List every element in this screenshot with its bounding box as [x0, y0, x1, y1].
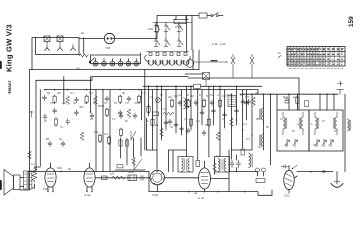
resistor R45 [0, 0, 1, 1]
wire grid bus y171.5 [28, 171, 149, 173]
capacitor C34 [212, 108, 216, 114]
bus right y94.2 [240, 93, 338, 95]
svg-text:8μF: 8μF [283, 95, 288, 99]
coil L7 choke [228, 96, 236, 107]
IF transformer can Fi2 [309, 110, 343, 151]
parts table top right [287, 47, 345, 67]
earth electrode hook [331, 172, 343, 188]
wire left rail from selector [32, 38, 36, 70]
IF transformer Fi3 (mid bottom) [178, 157, 193, 173]
wire selector tap down [83, 38, 85, 54]
svg-text:50: 50 [210, 93, 213, 97]
wire rail x231.4 [230, 94, 232, 159]
svg-text:F18: F18 [43, 187, 49, 191]
resistor R27 [213, 159, 217, 175]
component value labels [31, 91, 298, 176]
wire mains bus top [157, 15, 223, 17]
capacitor C41 [186, 128, 190, 134]
junction dots right cluster [236, 119, 264, 135]
wire step at x92 [91, 77, 93, 81]
svg-text:50: 50 [90, 117, 93, 121]
svg-text:300: 300 [79, 105, 84, 109]
IF transformer can Fi1 [277, 110, 309, 151]
svg-text:2M: 2M [168, 95, 172, 99]
wire rail x173 lower [172, 150, 174, 172]
wire V5 to earth y171.6 [294, 172, 333, 178]
wire rail x246.5 [246, 90, 248, 120]
wire V3 anode to V4 grid [165, 177, 199, 179]
capacitor C42 [202, 130, 206, 136]
coil L10 left of Fi1 lower [260, 134, 264, 146]
resistor R28 [241, 149, 244, 155]
wire rail x181.5 [181, 90, 183, 135]
wire rail x40.3 [39, 90, 41, 166]
svg-text:5k: 5k [146, 119, 149, 123]
svg-text:159: 159 [348, 16, 355, 27]
svg-text:0,1: 0,1 [104, 132, 109, 136]
svg-text:U a1: U a1 [198, 196, 205, 200]
wire rail x152.5 [152, 90, 154, 130]
svg-text:0,1: 0,1 [70, 91, 74, 95]
trimmer bank C1b [154, 32, 183, 47]
wire V2 to V3 signal path [95, 177, 150, 179]
wire x152.5 extend [152, 130, 154, 150]
trimmer T2 [134, 159, 142, 170]
resistor R3 [53, 95, 56, 104]
bus y80.3 left [36, 79, 92, 81]
wire jog x258 [257, 90, 259, 95]
label aW nodes [212, 42, 226, 46]
wire vertical right of mains switch [191, 16, 193, 51]
wire rail x277 [276, 94, 278, 110]
junction dots mid [148, 86, 328, 95]
svg-text:50: 50 [68, 167, 72, 171]
svg-text:50: 50 [256, 117, 260, 121]
wire rail x208.9 [208, 86, 210, 157]
wire rail x110 lower [109, 150, 111, 172]
svg-text:0,5: 0,5 [110, 172, 114, 176]
wire y171.6 mid-right [229, 171, 258, 173]
marks left of table [278, 53, 282, 58]
capacitor C18 [285, 97, 289, 103]
svg-text:1μ: 1μ [59, 137, 63, 141]
wire coil box top [91, 54, 141, 56]
capacitor C9 grid [90, 111, 94, 119]
wire rail x120.5 lower [120, 138, 122, 158]
tube V3 circle [150, 170, 164, 184]
wire lamp to mains drop [113, 38, 157, 40]
resistor R17 [170, 99, 173, 108]
choke L12 [249, 153, 253, 167]
svg-text:a W: a W [212, 42, 218, 46]
trimmer bank C1a [153, 22, 192, 32]
svg-text:a W: a W [220, 42, 226, 46]
resistor R29 [256, 179, 265, 183]
page number 159 (rotated, right margin) [348, 16, 355, 27]
resistor R15 [153, 112, 159, 115]
trimmer T1 [131, 131, 136, 140]
resistor R39 [207, 118, 210, 127]
scan artifact left edge [0, 62, 2, 189]
headphone jack J1 [256, 168, 266, 176]
loudspeaker LS [4, 170, 20, 196]
capacitor C36 [235, 108, 239, 114]
wire pulley to pointer [194, 61, 228, 63]
parts table extra ink [288, 48, 344, 50]
junction dots bottom bus [188, 191, 219, 193]
wire rail x127 lower [126, 138, 128, 165]
plug contact P1 [45, 45, 50, 51]
resistor R31 [125, 140, 128, 146]
capacitor C29 [46, 137, 52, 147]
wire rail x270.5 [270, 94, 272, 165]
wire rail x133.5 lower [133, 138, 135, 157]
resistor R10 [127, 109, 131, 117]
title text "Hasor King GW V/3" (rotated, left margin) [5, 24, 14, 93]
capacitor C13 [178, 100, 182, 106]
wire rail x96 [95, 90, 97, 150]
wire drop from mains to lamp line [156, 16, 158, 39]
resistor R8 [138, 95, 141, 104]
wire V3 cathode drop [149, 172, 157, 192]
coil L8 right edge [347, 119, 351, 131]
fuse Si [199, 13, 207, 18]
resistor R12 0,1 [104, 132, 111, 145]
wire rail x252 [251, 94, 253, 150]
wire link y170 [115, 169, 145, 171]
capacitor C40 [180, 126, 184, 132]
svg-text:0,1: 0,1 [222, 117, 226, 121]
resistor R1 heater dropper [79, 54, 88, 57]
svg-text:Hasor: Hasor [7, 80, 12, 93]
coil L11 osc with core [184, 98, 188, 109]
capacitor C31 [164, 120, 168, 126]
wire rail x263.4 [262, 94, 264, 150]
svg-text:I·63: I·63 [105, 46, 111, 50]
arrow on earth wire [323, 170, 327, 173]
capacitor C24 block [128, 175, 137, 181]
resistor R24 zigzag vertical [32, 167, 36, 182]
svg-text:0,5: 0,5 [125, 101, 129, 105]
resistor R6 [94, 96, 98, 104]
frame top-right y78 [188, 77, 299, 79]
svg-text:50: 50 [186, 93, 189, 97]
tube V2 ellipse [84, 163, 95, 191]
wire rail x110 [109, 90, 111, 150]
capacitor C2 [42, 95, 46, 101]
wire rail x220 [219, 86, 221, 156]
wire rail x141 lower [140, 138, 142, 156]
wire speaker to transformer [20, 178, 24, 187]
wire mains drop x186.5 [186, 16, 188, 52]
wire rail x327 [326, 94, 328, 110]
junction node b [112, 171, 114, 173]
parts table overlay [287, 47, 345, 67]
svg-text:0,1: 0,1 [163, 107, 167, 111]
resistor R13 [80, 132, 84, 140]
resistor R21 [252, 97, 256, 105]
wire R24 top link [32, 167, 40, 188]
wire selector box to lamp [79, 38, 104, 40]
wire rail x197.7 [197, 90, 199, 161]
wire rail x320 [319, 94, 321, 110]
wire rail x236.5 [236, 86, 238, 125]
svg-text:L3O: L3O [284, 194, 290, 198]
capacitor C38 [43, 114, 47, 120]
spark gap arrester E1 [231, 54, 235, 78]
svg-text:F10: F10 [57, 166, 63, 170]
capacitor C26 [230, 160, 234, 168]
junction node a [60, 171, 62, 173]
resistor R41 above V4 [196, 161, 200, 167]
svg-text:a1: a1 [194, 191, 198, 195]
wire rail x166 [165, 90, 167, 130]
capacitor C32 [174, 122, 178, 128]
svg-text:1M: 1M [196, 119, 200, 123]
svg-text:100: 100 [148, 27, 153, 31]
wire left rail x29.5 [29, 70, 31, 190]
capacitor C8 [118, 110, 122, 116]
wire rail x236.5 bottom [236, 155, 238, 172]
resistor R20 [218, 99, 221, 108]
resistor R26 zigzag [112, 176, 125, 179]
svg-text:0,1: 0,1 [178, 93, 182, 97]
coil pack L1-L6 winding loops [148, 60, 189, 65]
svg-text:50: 50 [47, 91, 51, 95]
trimmer C23 in Fi2 [329, 139, 334, 147]
svg-text:0,1: 0,1 [104, 101, 108, 105]
svg-text:50: 50 [73, 101, 76, 105]
capacitor C17 [247, 99, 251, 105]
svg-text:a: a [297, 122, 299, 126]
capacitor C6 [53, 108, 57, 114]
svg-text:μμ: μμ [76, 66, 80, 70]
svg-text:50: 50 [170, 125, 173, 129]
capacitor C27 [237, 160, 241, 168]
capacitor C28 above V5 [281, 165, 289, 168]
svg-text:0,2: 0,2 [84, 101, 88, 105]
extra value labels [44, 93, 337, 147]
tube socket pins [47, 191, 92, 192]
band switch contact row (6 contacts) [91, 53, 141, 66]
output transformer Tr1 [24, 171, 32, 189]
svg-text:2M: 2M [57, 91, 62, 95]
wire rail x297.4 [296, 94, 298, 110]
capacitor C14 [194, 100, 198, 106]
capacitor C4 [105, 96, 109, 102]
capacitor C30 [59, 137, 65, 147]
wire bottom bus y191.6 [149, 190, 272, 195]
svg-text:0,5: 0,5 [226, 93, 230, 97]
resistor R34 series in bus [194, 84, 201, 88]
bus main HT y89.6 [45, 89, 258, 91]
wire rail x289 [288, 94, 290, 110]
wire rail x157 (to V3 grid) [156, 86, 158, 170]
wire transformer bottom to rail [20, 189, 30, 191]
trimmer C19 in Fi1 [285, 139, 290, 147]
coil L9 left of Fi1 [260, 108, 264, 120]
resistor R46 [216, 132, 220, 140]
wire V4 anode right [211, 178, 230, 180]
wire y150 link [231, 149, 252, 151]
switch S2 heater [89, 58, 95, 63]
wire jog y150 [147, 149, 158, 151]
svg-text:0,1: 0,1 [150, 95, 154, 99]
svg-text:0,1: 0,1 [50, 101, 54, 105]
svg-text:4μF: 4μF [293, 95, 298, 99]
capacitor C11 [133, 113, 137, 119]
wire rail x191 [190, 86, 192, 130]
svg-text:C3D: C3D [152, 193, 159, 197]
wire rail x144.8 [144, 70, 146, 150]
resistor R30 [119, 140, 122, 146]
coil pack L1-L6 trimmer caps row [147, 52, 189, 56]
wire right end of coil box down [193, 50, 199, 70]
svg-text:0,1: 0,1 [322, 119, 326, 123]
resistor R44 [54, 118, 57, 126]
junction node c [310, 171, 312, 173]
wire rail x224.5 [224, 90, 226, 128]
tube V1 output ellipse [45, 163, 56, 191]
tube V5 rectifier ellipse [284, 166, 294, 194]
svg-text:1M: 1M [62, 101, 66, 105]
svg-text:1M: 1M [258, 145, 263, 149]
svg-text:0,1: 0,1 [243, 122, 247, 126]
svg-text:0,2: 0,2 [184, 117, 188, 121]
capacitor C16 [241, 99, 245, 105]
wire rail x63.8 [63, 77, 65, 105]
resistor R33 [117, 165, 123, 168]
plug contact P3 [71, 45, 76, 51]
wire rail x36 [35, 80, 37, 171]
wire rail x90.5 [90, 77, 92, 113]
resistor R43 [28, 151, 32, 159]
svg-text:b: b [311, 122, 313, 126]
resistor R35 [147, 105, 150, 114]
trimmer C21 in Fi2 [315, 139, 320, 147]
junction dots on HT bus [44, 86, 335, 95]
resistor R40 [230, 118, 234, 126]
resistor R11 1M [94, 130, 102, 143]
wire rail x96 lower [95, 150, 97, 172]
resistor R2 0,1A bridging fuse [174, 16, 188, 30]
junction node d [244, 191, 246, 193]
resistor R42 [30, 111, 33, 117]
wire rail x334 [333, 94, 335, 110]
bus chassis upper y69.6 [30, 69, 200, 71]
wire rail x202 [201, 90, 203, 125]
switch S3 near V5 [292, 165, 298, 169]
wire rail x103 [102, 90, 104, 172]
resistor R22 [296, 96, 299, 105]
capacitor C3 [74, 97, 78, 103]
svg-text:King GW V/3: King GW V/3 [5, 24, 14, 72]
svg-text:0,5: 0,5 [313, 143, 317, 147]
resistor R23 [305, 101, 309, 107]
switch S1 mains [211, 13, 219, 17]
svg-text:50: 50 [44, 119, 47, 123]
resistor R19 [202, 99, 205, 108]
box voltage selector unit [36, 38, 80, 55]
svg-text:0,5: 0,5 [245, 95, 249, 99]
resistor R7 [119, 95, 122, 104]
resistor R9 [105, 108, 108, 117]
wire rail x146.5 [146, 118, 148, 150]
wire rail x176 [175, 86, 177, 133]
labels right cluster [243, 117, 313, 149]
wire link y150 Fi3 [169, 149, 187, 151]
resistor R16 zigzag [163, 112, 174, 115]
fuse F3 hatched [185, 73, 210, 87]
capacitor C33 [200, 110, 204, 116]
resistor R5 [85, 95, 88, 104]
wire rail x186.5 [186, 86, 188, 156]
svg-text:0,1: 0,1 [155, 123, 159, 127]
trimmer C22 in Fi2 [322, 139, 327, 147]
wire rail x213.5 [213, 86, 215, 125]
svg-text:50: 50 [160, 93, 163, 97]
wire rail x168.5 lower [168, 150, 170, 172]
capacitor C37 [245, 100, 249, 106]
capacitor C12 [168, 119, 172, 125]
dial lamp I-63 [104, 33, 114, 50]
svg-text:0,2: 0,2 [246, 137, 250, 141]
svg-text:50: 50 [292, 129, 295, 133]
svg-text:0,1: 0,1 [217, 93, 221, 97]
wire rail x141.5 [141, 90, 143, 120]
svg-text:0,1: 0,1 [60, 125, 64, 129]
resistor R14 [119, 128, 122, 137]
svg-text:50: 50 [122, 91, 126, 95]
resistor R36 [151, 118, 154, 127]
svg-text:50: 50 [285, 143, 288, 147]
svg-text:50: 50 [125, 119, 128, 123]
ganged bracket coil pack [145, 55, 148, 61]
svg-text:50: 50 [114, 101, 117, 105]
capacitor C7 [74, 110, 78, 116]
wire rail x229 bottom [228, 150, 230, 192]
svg-text:0,1: 0,1 [280, 117, 284, 121]
fuse holder F1 (hatched square) [44, 36, 50, 44]
table caption pseudo-text [289, 68, 343, 70]
dial drive pulley [186, 57, 194, 68]
resistor R18 [187, 99, 190, 108]
svg-text:0,1: 0,1 [31, 162, 35, 166]
svg-text:5000: 5000 [128, 170, 135, 174]
svg-text:1M: 1M [134, 101, 138, 105]
wire rail x242.6 [242, 90, 244, 148]
potentiometer P1 [156, 98, 161, 103]
capacitor C35 [223, 112, 227, 118]
resistor R38 [189, 118, 192, 127]
wire rail x148.5 [148, 86, 150, 116]
spark gap arrester E2 [250, 54, 254, 78]
resistor R37 [160, 128, 164, 136]
svg-text:0,3: 0,3 [89, 91, 93, 95]
IF transformer Fi4 (mid bottom right) [215, 157, 230, 173]
svg-text:0,1: 0,1 [112, 117, 116, 121]
resistor R25 [102, 176, 108, 180]
wire rail x161.5 [161, 86, 163, 140]
trimmer C20 in Fi1 [293, 139, 298, 147]
resistor R4 [66, 96, 70, 104]
svg-text:sb: sb [81, 31, 85, 35]
capacitor C15 [210, 100, 214, 106]
svg-text:5k: 5k [266, 125, 270, 129]
resistor R32 [132, 157, 136, 165]
svg-text:50: 50 [46, 137, 50, 141]
plug contact P2 [58, 45, 63, 51]
